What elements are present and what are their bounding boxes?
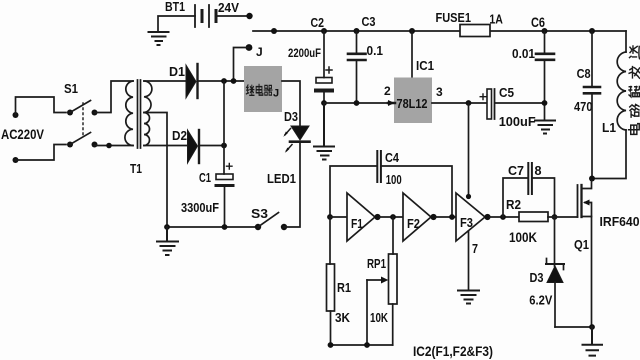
svg-text:S3: S3 (251, 206, 268, 221)
svg-text:D2: D2 (172, 128, 187, 143)
capacitor C3 (348, 14, 383, 103)
wire oscillator bottom rail (331, 344, 393, 346)
svg-text:3: 3 (436, 85, 443, 99)
wire S1 to transformer primary bottom (95, 145, 134, 147)
svg-text:Q1: Q1 (574, 237, 589, 252)
capacitor C7 (503, 163, 555, 217)
svg-text:C1: C1 (199, 170, 211, 185)
node rail C3 (354, 28, 360, 34)
inductor L1 (592, 31, 626, 179)
svg-text:F2: F2 (407, 217, 420, 231)
op-amp F3 (456, 193, 491, 241)
svg-text:BT1: BT1 (165, 0, 185, 14)
node source/ground (589, 324, 595, 330)
wire F2 out to F3 (436, 216, 456, 218)
svg-text:F3: F3 (460, 216, 473, 230)
wire F1 input (330, 216, 347, 218)
svg-text:F1: F1 (351, 217, 363, 231)
svg-text:C7: C7 (508, 164, 524, 178)
wire AC top to S1 (16, 97, 67, 115)
ground (C2/C3) (314, 103, 334, 160)
svg-text:8: 8 (535, 164, 542, 178)
wire zener to source (555, 326, 592, 328)
svg-text:100K: 100K (509, 230, 537, 245)
node J branch (231, 78, 237, 84)
wire battery right lead (216, 15, 247, 17)
svg-text:T1: T1 (130, 161, 142, 176)
wire J to D1 cathode line (234, 48, 250, 82)
svg-text:D3: D3 (530, 270, 544, 285)
node F3 top (466, 194, 471, 199)
svg-text:LED1: LED1 (267, 171, 296, 186)
svg-text:J: J (256, 45, 263, 59)
svg-text:100: 100 (386, 173, 402, 187)
transformer T1 core (138, 80, 141, 148)
svg-text:1A: 1A (489, 13, 503, 27)
svg-text:C2: C2 (311, 15, 325, 30)
svg-text:D1: D1 (169, 64, 185, 79)
label 电磁能发送 (vertical) (629, 46, 640, 134)
node gate (552, 214, 558, 220)
svg-text:R1: R1 (337, 280, 351, 295)
node rail left (271, 28, 277, 34)
transistor Q1 IRF640 (574, 181, 640, 327)
svg-text:J: J (273, 88, 279, 100)
capacitor C6 (512, 15, 554, 120)
capacitor C5 (480, 86, 536, 129)
node J terminal (246, 44, 263, 59)
zener D3 (529, 217, 564, 327)
node rail-ground (164, 224, 170, 230)
svg-text:3300uF: 3300uF (181, 200, 219, 215)
svg-text:D3: D3 (284, 109, 298, 124)
node battery + terminal (246, 13, 252, 19)
svg-text:0.1: 0.1 (367, 44, 384, 58)
svg-text:7: 7 (472, 242, 478, 256)
svg-text:100uF: 100uF (499, 114, 536, 129)
capacitor C4 (330, 151, 452, 217)
wire ground line to IC1 pin2 (324, 102, 393, 104)
wire AC bottom to S1 (16, 145, 67, 161)
diode D2 (172, 128, 199, 163)
LED D3 (283, 109, 309, 153)
IC1 regulator 78L12 (384, 31, 443, 123)
wire relay to LED (282, 81, 300, 126)
transformer T1 secondary winding bottom (144, 113, 150, 146)
wire gate (548, 216, 578, 218)
svg-text:C8: C8 (577, 66, 591, 81)
fuse FUSE1 (436, 10, 503, 37)
wire secondary bottom to D2 (144, 145, 188, 147)
svg-text:FUSE1: FUSE1 (436, 10, 472, 25)
svg-text:IC1: IC1 (416, 58, 434, 73)
ground (battery) (149, 32, 169, 45)
node C2 bottom (321, 100, 327, 106)
svg-text:10K: 10K (370, 310, 388, 325)
node F1 input (327, 214, 333, 220)
capacitor C1 (181, 164, 233, 216)
wire F1 out to F2 (380, 216, 403, 218)
ground (Q1 source) (583, 327, 603, 356)
AC source terminals (1, 112, 44, 163)
wire secondary top to D1 (144, 80, 186, 82)
svg-text:470: 470 (574, 99, 593, 114)
op-amp F1 (347, 193, 381, 241)
node R2 left (500, 214, 506, 220)
capacitor C8 (574, 31, 600, 179)
ground (main rail) (157, 227, 178, 255)
svg-text:0.01: 0.01 (512, 47, 535, 61)
wire IC1 pin3 output (432, 102, 486, 104)
ground (IC2 pin7) (458, 291, 479, 304)
switch S3 (251, 206, 287, 230)
battery BT1 (165, 0, 239, 27)
wire C5 to C6 ground (495, 102, 545, 104)
capacitor C2 (288, 15, 332, 103)
svg-text:24V: 24V (218, 0, 239, 15)
svg-text:C3: C3 (362, 14, 376, 29)
svg-text:78L12: 78L12 (397, 97, 428, 111)
node C5/C6 (542, 100, 548, 106)
relay box 继电器J (244, 66, 282, 112)
node rail C8 (589, 28, 595, 34)
wire bottom rail (167, 226, 258, 228)
svg-text:C5: C5 (499, 86, 514, 100)
pin 7 wire (468, 231, 470, 290)
switch S1 (64, 81, 98, 148)
node D2 join (221, 143, 227, 149)
wire F3 out to R2 (490, 216, 519, 218)
node drain/L1/C8 (589, 176, 595, 182)
node rail IC1 (409, 28, 415, 34)
ground (C6) (535, 121, 555, 134)
svg-text:C6: C6 (531, 15, 545, 30)
wire S1 to transformer primary top (95, 81, 134, 113)
node rail C6 (542, 28, 548, 34)
node C4 right (449, 214, 455, 220)
wire secondary center tap (145, 113, 167, 228)
diode D1 (169, 64, 198, 98)
wire S3 to LED branch (284, 143, 300, 227)
wire D1 cathode to relay (199, 80, 245, 82)
svg-text:C4: C4 (385, 151, 399, 165)
svg-text:IRF640: IRF640 (600, 214, 640, 229)
wire C1 to bottom rail (224, 187, 226, 227)
svg-text:3K: 3K (335, 310, 351, 325)
node wiper bottom (364, 342, 370, 348)
svg-text:6.2V: 6.2V (529, 293, 552, 308)
svg-text:L1: L1 (602, 121, 616, 135)
node primary bottom junction (106, 143, 112, 149)
wire D1/D2 join vertical to C1 (223, 81, 225, 174)
resistor R2 (506, 197, 548, 245)
transformer T1 secondary winding top (144, 81, 152, 113)
svg-text:S1: S1 (64, 81, 78, 96)
svg-text:IC2(F1,F2&F3): IC2(F1,F2&F3) (413, 344, 493, 359)
transformer T1 primary winding (125, 81, 133, 146)
wire IC2 power feed (468, 103, 470, 196)
resistor R1 (327, 217, 352, 345)
node C3 bottom (354, 100, 360, 106)
svg-text:AC220V: AC220V (1, 127, 44, 142)
svg-text:2: 2 (384, 84, 391, 98)
potentiometer RP1 (367, 217, 397, 345)
svg-text:R2: R2 (506, 197, 521, 212)
node D1-D2 join top (221, 78, 227, 84)
wire battery left lead (158, 16, 195, 31)
node IC2 power branch (466, 100, 472, 106)
wire +24V top rail (253, 30, 626, 32)
wire D2 cathode (200, 145, 224, 147)
svg-text:2200uF: 2200uF (288, 48, 321, 60)
node C1 rail (222, 224, 228, 230)
op-amp F2 (403, 193, 437, 241)
node R1 bottom (328, 342, 334, 348)
node rail C2 (321, 28, 327, 34)
node RP1 branch (390, 214, 396, 220)
svg-text:RP1: RP1 (367, 256, 386, 271)
